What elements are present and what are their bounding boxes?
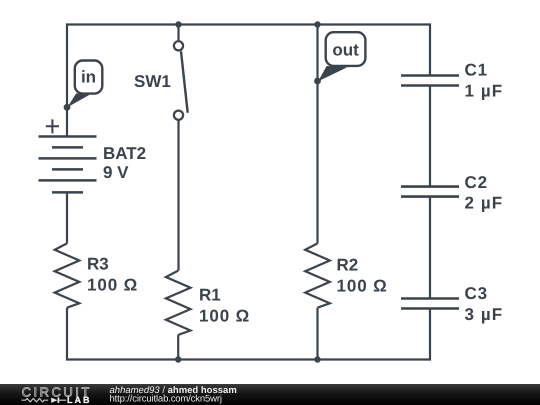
svg-text:R1: R1: [199, 285, 221, 304]
CircuitLab logo CIRCUIT: [22, 385, 92, 400]
wire top rail: [67, 23, 430, 25]
node out callout tail: [318, 66, 347, 81]
CircuitLab logo diode: [51, 397, 66, 403]
wire left vertical (top rail to battery +): [66, 23, 68, 136]
node out dot: [314, 78, 321, 85]
node in callout tail: [67, 93, 89, 107]
node out label: [332, 41, 359, 60]
svg-text:2 µF: 2 µF: [465, 194, 504, 213]
svg-text:3 µF: 3 µF: [465, 305, 504, 324]
svg-text:out: out: [332, 41, 359, 60]
junction top out wire: [314, 21, 320, 27]
footer credit line 1: [110, 385, 237, 396]
value 9 V: [103, 163, 129, 182]
wire right vertical top rail to C1: [429, 23, 431, 75]
value C2 2 uF: [465, 194, 504, 213]
footer credit line 2: [110, 393, 222, 404]
svg-text:100 Ω: 100 Ω: [87, 276, 138, 295]
battery BAT2: [39, 137, 97, 193]
node in callout bubble: [75, 61, 103, 94]
svg-text:9 V: 9 V: [103, 163, 129, 182]
wire R1 to bottom rail: [177, 335, 179, 360]
label R3: [87, 255, 109, 274]
svg-text:1 µF: 1 µF: [465, 82, 504, 101]
wire SW1 to R1: [177, 120, 179, 271]
label C3: [465, 284, 488, 303]
switch SW1 lever: [181, 51, 188, 113]
value R2 100 ohm: [337, 276, 388, 295]
resistor R2 zigzag: [305, 243, 330, 307]
switch SW1 bottom terminal: [174, 111, 183, 120]
svg-text:C1: C1: [465, 61, 488, 80]
value C3 3 uF: [465, 305, 504, 324]
node in dot: [64, 104, 71, 111]
svg-text:C3: C3: [465, 284, 488, 303]
CircuitLab logo LAB: [67, 395, 92, 405]
value R3 100 ohm: [87, 276, 138, 295]
resistor R3 zigzag: [55, 243, 80, 307]
junction bottom R1: [175, 356, 181, 362]
svg-text:BAT2: BAT2: [103, 144, 146, 163]
node in label: [81, 68, 96, 87]
wire bottom rail: [67, 358, 430, 360]
label R1: [199, 285, 221, 304]
value R1 100 ohm: [199, 306, 250, 325]
wire top rail to SW1: [177, 25, 179, 42]
switch SW1 top terminal: [174, 41, 183, 50]
capacitor C3: [401, 299, 459, 309]
label C1: [465, 61, 488, 80]
svg-text:SW1: SW1: [134, 72, 171, 91]
svg-text:100 Ω: 100 Ω: [199, 306, 250, 325]
CircuitLab logo resistor squiggle: [22, 399, 49, 402]
svg-text:http://circuitlab.com/ckn5wrj: http://circuitlab.com/ckn5wrj: [110, 393, 222, 404]
svg-text:R2: R2: [337, 256, 359, 275]
label C2: [465, 173, 488, 192]
junction bottom R2: [314, 356, 320, 362]
svg-text:R3: R3: [87, 255, 109, 274]
wire R3 to bottom rail: [66, 308, 68, 361]
label R2: [337, 256, 359, 275]
value C1 1 uF: [465, 82, 504, 101]
svg-text:100 Ω: 100 Ω: [337, 276, 388, 295]
capacitor C1: [401, 76, 459, 86]
wire R2 to bottom rail: [316, 308, 318, 360]
svg-text:in: in: [81, 68, 96, 87]
label SW1: [134, 72, 171, 91]
battery plus sign: [46, 119, 59, 133]
label BAT2: [103, 144, 146, 163]
footer bar: [0, 384, 540, 405]
wire battery to R3: [66, 192, 68, 243]
svg-text:LAB: LAB: [67, 395, 92, 405]
node out callout bubble: [326, 32, 366, 66]
wire C2 to C3: [429, 198, 431, 299]
wire C1 to C2: [429, 87, 431, 187]
junction top SW1: [175, 21, 181, 27]
wire C3 to bottom rail: [429, 310, 431, 361]
resistor R1 zigzag: [166, 271, 191, 335]
capacitor C2: [401, 187, 459, 197]
wire top rail to out node and R2: [316, 25, 318, 244]
svg-text:C2: C2: [465, 173, 488, 192]
